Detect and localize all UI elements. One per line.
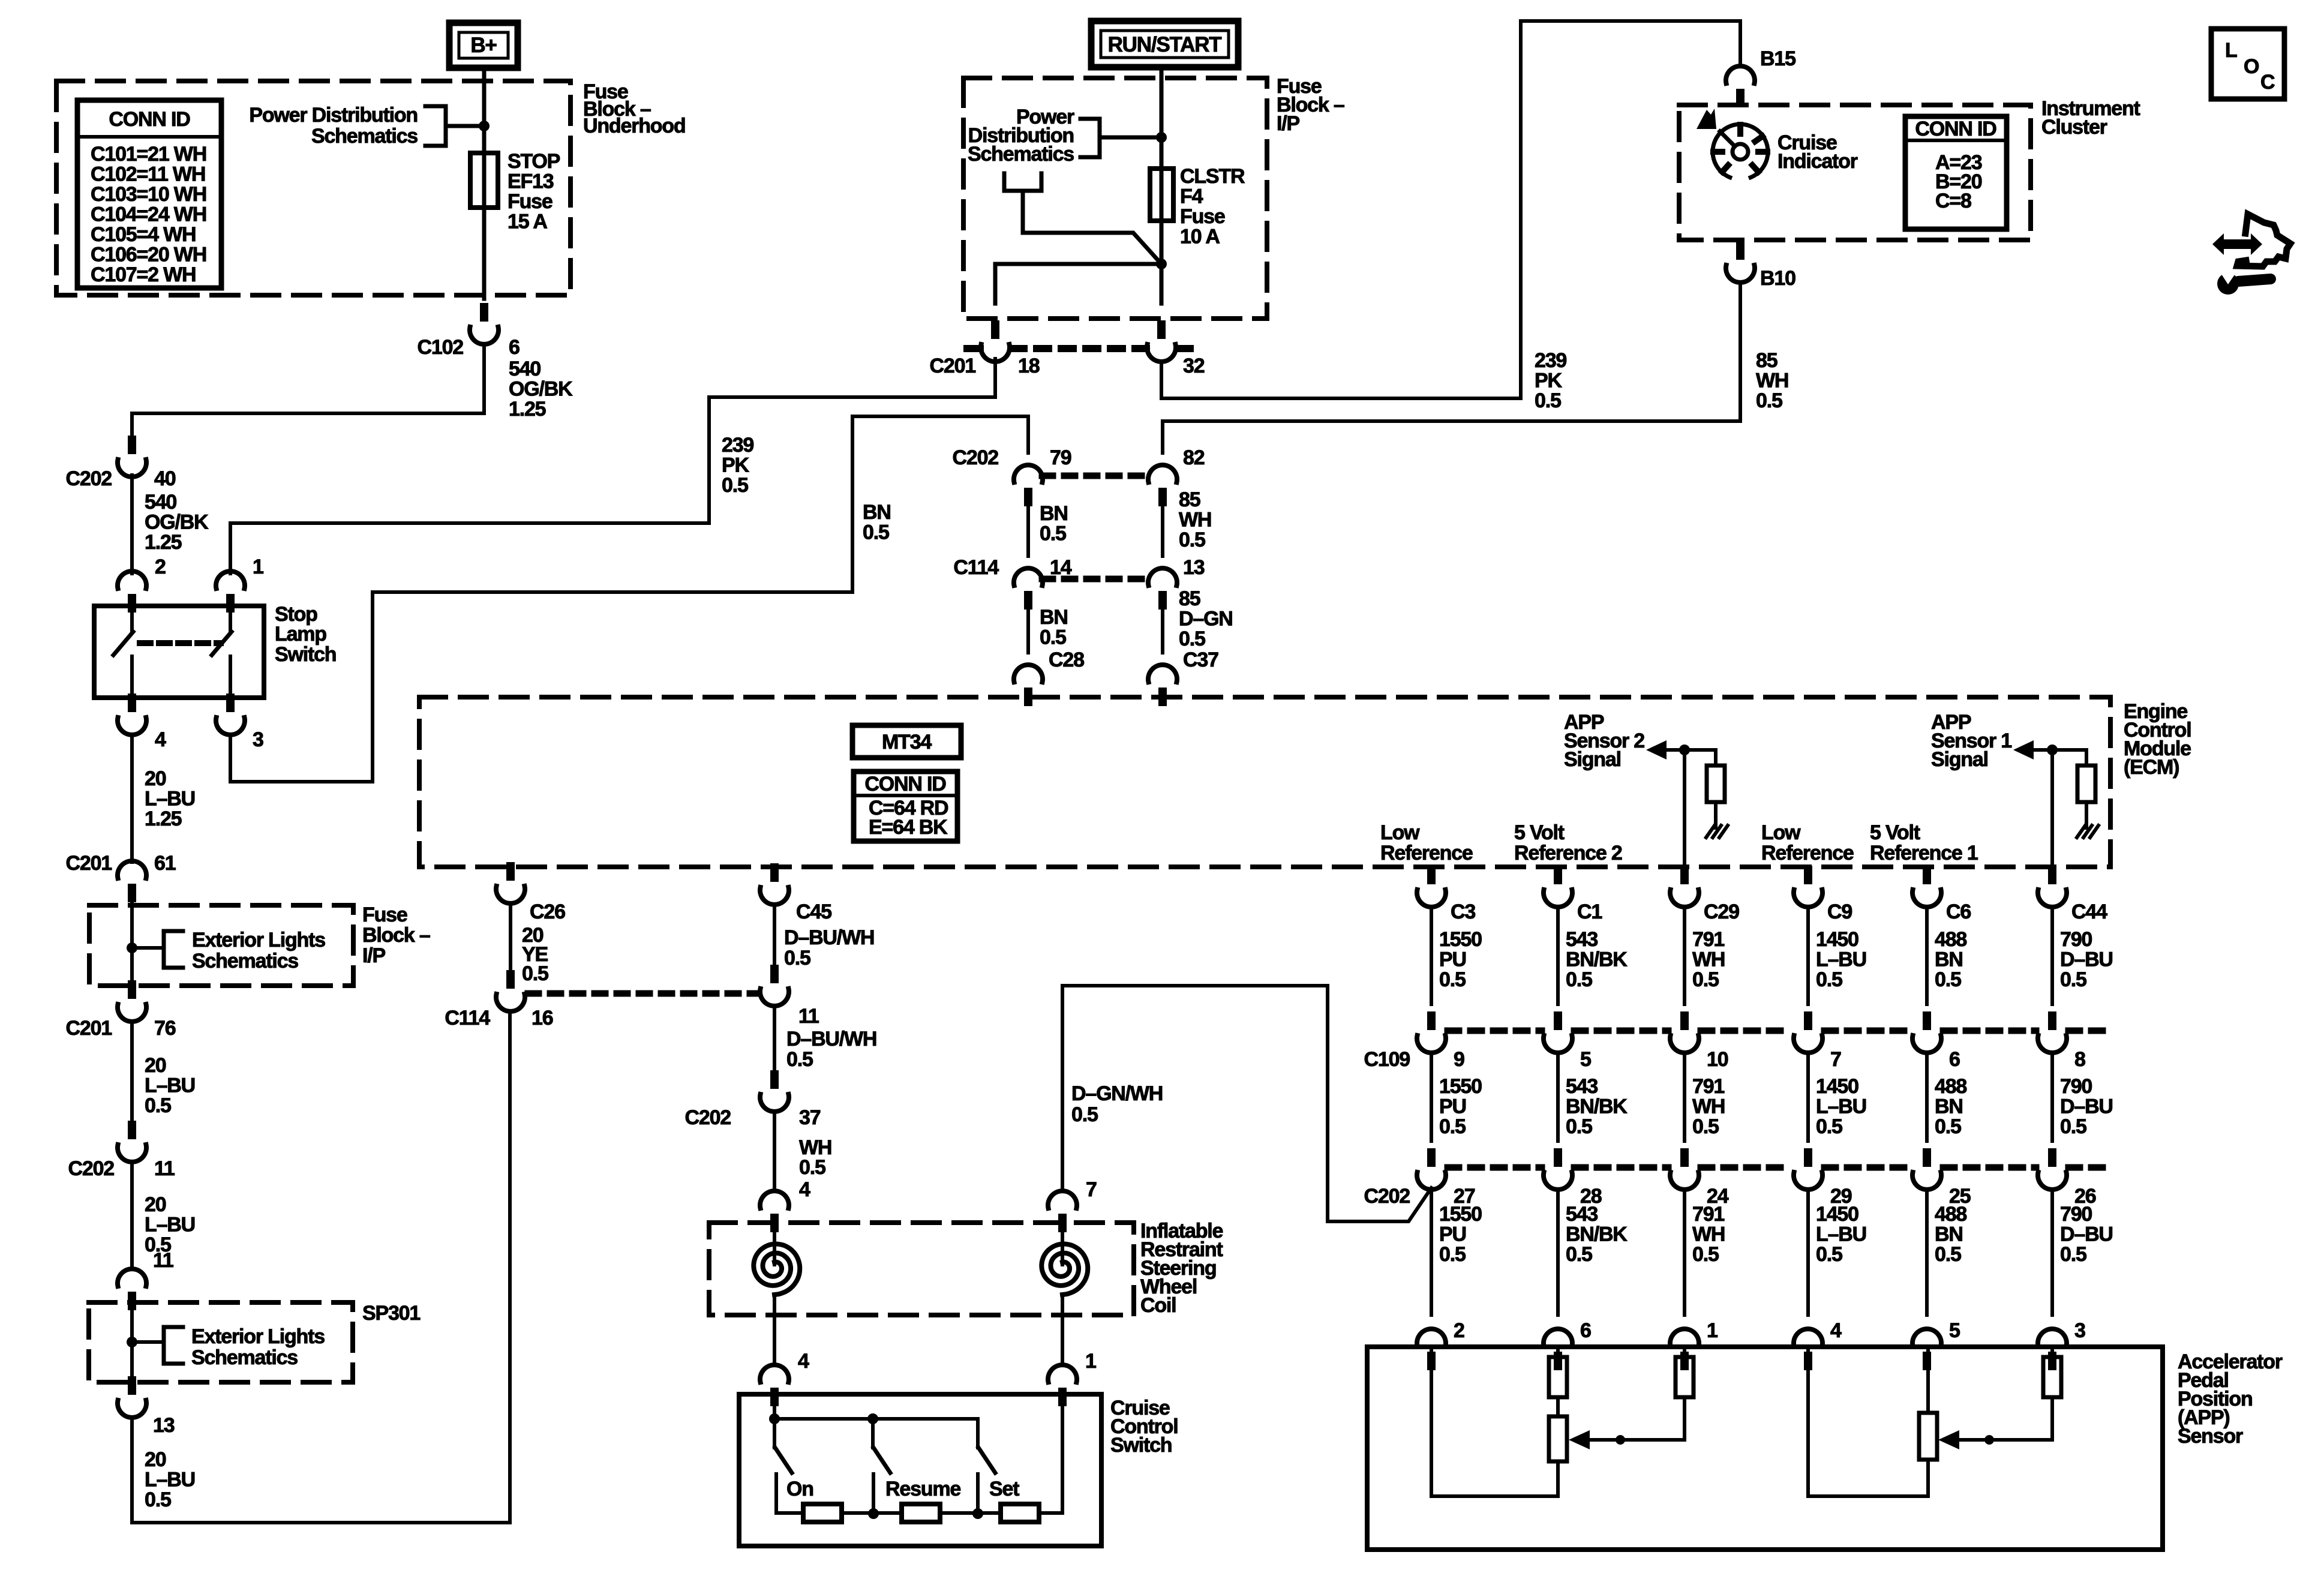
svg-text:4: 4 xyxy=(798,1350,809,1373)
instrument cluster box xyxy=(1679,105,2031,240)
connector C201 pin 18 xyxy=(981,320,1010,362)
svg-text:C6: C6 xyxy=(1946,900,1971,923)
svg-text:4: 4 xyxy=(1830,1319,1842,1342)
wiper arrow APP1 xyxy=(1938,1430,1959,1449)
svg-text:0.5: 0.5 xyxy=(1566,968,1592,991)
svg-text:L–BU: L–BU xyxy=(1816,948,1866,971)
svg-text:C114: C114 xyxy=(445,1007,490,1029)
gauge flag arrow xyxy=(1697,109,1716,129)
svg-text:C202: C202 xyxy=(953,446,999,469)
svg-text:Signal: Signal xyxy=(1931,748,1988,771)
svg-text:F4: F4 xyxy=(1180,185,1203,208)
connector C109 pin 9 xyxy=(1417,1011,1446,1053)
svg-text:0.5: 0.5 xyxy=(1535,389,1561,412)
connector C102 pin 6 xyxy=(470,303,499,344)
svg-text:10: 10 xyxy=(1707,1048,1728,1071)
svg-text:Fuse: Fuse xyxy=(508,190,553,213)
svg-text:13: 13 xyxy=(1183,556,1205,579)
svg-text:8: 8 xyxy=(2074,1048,2085,1071)
APP internals right xyxy=(1806,1347,1810,1496)
svg-text:0.5: 0.5 xyxy=(1692,1243,1719,1266)
svg-text:5 Volt: 5 Volt xyxy=(1514,821,1565,844)
wire: 13 down right and up to C114-16 xyxy=(132,1011,510,1523)
svg-text:D–BU/WH: D–BU/WH xyxy=(784,926,874,949)
connector APP pin 4 xyxy=(1794,1329,1822,1370)
svg-text:CONN ID: CONN ID xyxy=(109,108,190,131)
wire C202-82 from B10 run xyxy=(1163,421,1740,453)
potentiometer: APP sensor 2 xyxy=(1549,1416,1567,1461)
svg-text:WH: WH xyxy=(1692,1095,1725,1118)
svg-text:Block –: Block – xyxy=(362,924,430,947)
svg-text:C107=2 WH: C107=2 WH xyxy=(91,263,196,286)
wire coil 7 feed xyxy=(1061,986,1064,1191)
C202 connector row dashed xyxy=(1448,1164,1542,1171)
wire into box xyxy=(1160,67,1164,304)
connector C114 pin 14 xyxy=(1014,568,1043,610)
connector APP pin 1 xyxy=(1670,1329,1699,1370)
svg-text:0.5: 0.5 xyxy=(1935,968,1961,991)
switch blade right xyxy=(229,606,232,632)
svg-text:0.5: 0.5 xyxy=(1566,1243,1592,1266)
connector C202 pin 82 xyxy=(1148,465,1177,506)
svg-text:40: 40 xyxy=(154,467,176,490)
svg-text:BN: BN xyxy=(863,501,891,524)
svg-text:C28: C28 xyxy=(1049,649,1084,671)
svg-text:543: 543 xyxy=(1566,928,1598,951)
svg-text:PU: PU xyxy=(1439,1095,1466,1118)
svg-text:SP301: SP301 xyxy=(362,1302,420,1325)
svg-text:RUN/START: RUN/START xyxy=(1108,33,1222,56)
wire: source to junction xyxy=(1023,191,1161,264)
svg-text:0.5: 0.5 xyxy=(1439,1243,1466,1266)
svg-text:C37: C37 xyxy=(1183,649,1218,671)
ground (ECM internal) xyxy=(2077,825,2085,837)
svg-text:3: 3 xyxy=(253,728,263,751)
connector B15 xyxy=(1726,66,1755,107)
connector pin 2 xyxy=(118,571,146,613)
B+ terminal box xyxy=(449,23,518,68)
svg-text:E=64 BK: E=64 BK xyxy=(869,816,948,839)
svg-text:1: 1 xyxy=(1707,1319,1718,1342)
connector C202 pin 24 xyxy=(1670,1148,1699,1190)
svg-text:Reference 2: Reference 2 xyxy=(1514,842,1622,864)
svg-text:0.5: 0.5 xyxy=(1816,968,1842,991)
svg-text:1450: 1450 xyxy=(1816,1203,1858,1226)
svg-text:79: 79 xyxy=(1050,446,1071,469)
connector C109 pin 10 xyxy=(1670,1011,1699,1053)
connector B10 xyxy=(1726,241,1755,283)
svg-text:L–BU: L–BU xyxy=(1816,1223,1866,1246)
connector C1 xyxy=(1544,866,1572,907)
svg-text:D–BU: D–BU xyxy=(2060,1223,2113,1246)
svg-text:1: 1 xyxy=(253,556,263,578)
svg-text:Underhood: Underhood xyxy=(583,115,686,137)
connector C202 pin 79 xyxy=(1014,465,1043,506)
branch to C201-18 xyxy=(995,264,1161,304)
svg-text:1.25: 1.25 xyxy=(145,531,182,554)
svg-text:3: 3 xyxy=(2074,1319,2085,1342)
svg-text:C202: C202 xyxy=(1364,1185,1410,1208)
coil spiral right xyxy=(1061,1223,1064,1265)
connector C201 pin 76 xyxy=(118,980,146,1022)
svg-text:0.5: 0.5 xyxy=(1756,389,1782,412)
connector C109 pin 7 xyxy=(1794,1011,1822,1053)
svg-text:0.5: 0.5 xyxy=(784,947,810,969)
resistor On xyxy=(803,1504,842,1522)
svg-text:0.5: 0.5 xyxy=(1935,1243,1961,1266)
RUN/START power box xyxy=(1091,21,1238,67)
wire: C102 down, left, down to C202-40 xyxy=(132,344,484,437)
fuse block I/P dashed box xyxy=(963,78,1267,319)
svg-text:C45: C45 xyxy=(796,900,831,923)
svg-text:CONN ID: CONN ID xyxy=(864,773,946,795)
svg-text:C114: C114 xyxy=(953,556,999,579)
C201 connector row dashed xyxy=(967,345,980,352)
svg-text:Reference: Reference xyxy=(1380,842,1473,864)
svg-text:543: 543 xyxy=(1566,1203,1598,1226)
svg-text:20: 20 xyxy=(145,1193,166,1216)
svg-text:0.5: 0.5 xyxy=(2060,1115,2086,1138)
svg-text:L–BU: L–BU xyxy=(145,1214,195,1236)
connector C9 xyxy=(1794,866,1822,907)
coil spiral left xyxy=(773,1223,776,1265)
svg-text:Indicator: Indicator xyxy=(1777,150,1858,173)
svg-text:Exterior Lights: Exterior Lights xyxy=(192,929,325,951)
svg-text:4: 4 xyxy=(155,728,166,751)
svg-text:PK: PK xyxy=(722,454,749,477)
connector APP pin 2 xyxy=(1417,1329,1446,1370)
svg-text:C101=21 WH: C101=21 WH xyxy=(91,143,206,166)
svg-text:EF13: EF13 xyxy=(508,170,554,193)
svg-text:0.5: 0.5 xyxy=(722,474,748,497)
stop lamp switch xyxy=(94,606,264,698)
junction xyxy=(479,121,490,131)
svg-text:0.5: 0.5 xyxy=(145,1094,171,1117)
svg-text:20: 20 xyxy=(145,1054,166,1077)
svg-text:5 Volt: 5 Volt xyxy=(1870,821,1920,844)
connector C202 pin 26 xyxy=(2038,1148,2067,1190)
connector C201 pin 61 xyxy=(118,861,146,902)
svg-text:0.5: 0.5 xyxy=(1692,968,1719,991)
svg-text:543: 543 xyxy=(1566,1075,1598,1098)
resistor Resume xyxy=(902,1504,940,1522)
resistor: APP sensor 2 pull-up xyxy=(1707,766,1725,802)
svg-text:0.5: 0.5 xyxy=(1816,1243,1842,1266)
svg-text:C=8: C=8 xyxy=(1935,190,1971,212)
connector C29 xyxy=(1670,866,1699,907)
svg-text:Low: Low xyxy=(1761,821,1801,844)
svg-text:6: 6 xyxy=(1580,1319,1591,1342)
svg-text:0.5: 0.5 xyxy=(1439,1115,1466,1138)
svg-text:7: 7 xyxy=(1830,1048,1841,1071)
svg-text:0.5: 0.5 xyxy=(145,1488,171,1511)
svg-text:488: 488 xyxy=(1935,1075,1966,1098)
svg-text:Cluster: Cluster xyxy=(2041,116,2107,139)
svg-text:C26: C26 xyxy=(530,900,565,923)
svg-text:O: O xyxy=(2244,55,2259,78)
fuse block I/P box (exterior lights) xyxy=(89,905,353,986)
resistor: APP2 signal branch xyxy=(1676,1357,1694,1397)
svg-text:0.5: 0.5 xyxy=(1692,1115,1719,1138)
svg-text:1.25: 1.25 xyxy=(145,807,182,830)
connector pin 13 xyxy=(118,1376,146,1418)
svg-text:CONN ID: CONN ID xyxy=(1915,118,1996,140)
svg-text:BN: BN xyxy=(1935,1223,1963,1246)
svg-text:D–GN/WH: D–GN/WH xyxy=(1071,1082,1163,1105)
svg-text:37: 37 xyxy=(799,1106,821,1129)
svg-text:488: 488 xyxy=(1935,928,1966,951)
svg-text:C44: C44 xyxy=(2071,900,2107,923)
svg-text:C201: C201 xyxy=(66,852,112,875)
svg-text:13: 13 xyxy=(153,1414,175,1437)
cruise indicator gauge xyxy=(1713,124,1768,178)
svg-text:BN/BK: BN/BK xyxy=(1566,1223,1628,1246)
svg-text:0.5: 0.5 xyxy=(1566,1115,1592,1138)
wire B10 down xyxy=(1739,282,1742,421)
svg-text:0.5: 0.5 xyxy=(1179,529,1205,551)
svg-text:32: 32 xyxy=(1183,355,1205,377)
svg-text:791: 791 xyxy=(1692,1203,1724,1226)
inflatable restraint steering wheel coil box xyxy=(709,1223,1134,1315)
svg-text:C201: C201 xyxy=(66,1017,112,1040)
svg-text:B10: B10 xyxy=(1760,267,1795,290)
svg-text:Schematics: Schematics xyxy=(968,143,1074,166)
LOC box xyxy=(2211,29,2284,99)
svg-text:STOP: STOP xyxy=(508,150,560,173)
svg-text:11: 11 xyxy=(154,1157,175,1180)
svg-text:0.5: 0.5 xyxy=(799,1156,825,1179)
svg-text:PK: PK xyxy=(1535,370,1562,392)
svg-text:1450: 1450 xyxy=(1816,1075,1858,1098)
svg-text:2: 2 xyxy=(155,556,166,578)
connector switch pin 4 xyxy=(760,1365,789,1406)
wire to stop lamp switch pin 2 xyxy=(130,475,134,574)
svg-text:C109: C109 xyxy=(1364,1048,1410,1071)
svg-text:C202: C202 xyxy=(685,1106,731,1129)
svg-text:L: L xyxy=(2225,39,2237,62)
svg-text:790: 790 xyxy=(2060,928,2092,951)
MT34 box xyxy=(852,725,961,758)
connector C44 xyxy=(2038,866,2067,907)
junction xyxy=(1984,1435,1994,1445)
svg-text:16: 16 xyxy=(532,1007,553,1029)
svg-text:Fuse: Fuse xyxy=(1180,205,1225,228)
svg-text:I/P: I/P xyxy=(1277,112,1299,135)
connector C37 xyxy=(1148,665,1177,706)
svg-text:C201: C201 xyxy=(930,355,976,377)
svg-text:5: 5 xyxy=(1580,1048,1591,1071)
connector C3 xyxy=(1417,866,1446,907)
svg-text:C3: C3 xyxy=(1451,900,1475,923)
svg-text:11: 11 xyxy=(153,1249,173,1272)
engine control module box xyxy=(419,697,2110,867)
svg-text:L–BU: L–BU xyxy=(145,1074,195,1097)
svg-text:C202: C202 xyxy=(66,467,112,490)
svg-text:C103=10 WH: C103=10 WH xyxy=(91,183,206,206)
connector C28 xyxy=(1014,665,1043,706)
mechanical link dashed xyxy=(140,640,221,646)
svg-text:BN: BN xyxy=(1935,1095,1963,1118)
connector C202 pin 29 xyxy=(1794,1148,1822,1190)
connector C26 xyxy=(496,862,525,903)
CONN ID table (cluster) xyxy=(1905,116,2007,229)
wire from C201-18 loop to pin 1 xyxy=(230,359,995,574)
svg-text:OG/BK: OG/BK xyxy=(509,378,573,401)
svg-text:1: 1 xyxy=(1085,1350,1096,1373)
CONN ID table (ECM) xyxy=(854,772,957,841)
connector C201 pin 32 xyxy=(1147,320,1176,362)
resistor: APP1 signal branch xyxy=(2043,1357,2061,1397)
svg-text:C202: C202 xyxy=(68,1157,115,1180)
resistor Set xyxy=(1001,1504,1039,1522)
svg-text:Resume: Resume xyxy=(885,1478,960,1500)
svg-text:18: 18 xyxy=(1018,355,1040,377)
svg-text:15 A: 15 A xyxy=(508,211,547,233)
svg-text:76: 76 xyxy=(154,1017,176,1040)
connector C109 pin 5 xyxy=(1544,1011,1572,1053)
svg-text:CLSTR: CLSTR xyxy=(1180,165,1245,188)
fuse CLSTR F4 xyxy=(1150,169,1173,221)
connector pin 3 xyxy=(216,694,245,735)
svg-text:9: 9 xyxy=(1454,1048,1464,1071)
svg-text:20: 20 xyxy=(145,1448,166,1471)
svg-text:Signal: Signal xyxy=(1564,748,1621,771)
svg-text:1550: 1550 xyxy=(1439,1203,1482,1226)
svg-text:Coil: Coil xyxy=(1140,1294,1176,1317)
svg-text:Fuse: Fuse xyxy=(362,903,407,926)
wire: B+ down through fuse block xyxy=(482,68,487,299)
svg-text:C: C xyxy=(2260,71,2275,94)
svg-text:0.5: 0.5 xyxy=(522,962,548,985)
svg-text:C1: C1 xyxy=(1577,900,1602,923)
svg-text:61: 61 xyxy=(154,852,176,875)
svg-text:C104=24 WH: C104=24 WH xyxy=(91,203,206,226)
svg-text:0.5: 0.5 xyxy=(1439,968,1466,991)
svg-text:82: 82 xyxy=(1183,446,1205,469)
svg-text:4: 4 xyxy=(799,1178,810,1201)
connector C114 pin 11 xyxy=(760,965,789,1006)
wire: pin3 to BN run xyxy=(230,416,1028,782)
svg-text:Schematics: Schematics xyxy=(191,1346,298,1369)
connector C6 xyxy=(1912,866,1941,907)
svg-text:540: 540 xyxy=(145,491,176,514)
svg-text:1550: 1550 xyxy=(1439,928,1482,951)
svg-text:1.25: 1.25 xyxy=(509,398,546,421)
svg-text:BN/BK: BN/BK xyxy=(1566,948,1628,971)
svg-text:0.5: 0.5 xyxy=(1179,628,1205,650)
svg-text:L–BU: L–BU xyxy=(145,788,195,810)
svg-text:0.5: 0.5 xyxy=(1071,1103,1098,1126)
resistor: APP2 upper xyxy=(1549,1357,1567,1397)
APP internals left xyxy=(1430,1347,1433,1496)
C109 connector row dashed xyxy=(1448,1028,1542,1034)
service icon wrench xyxy=(2217,273,2239,295)
svg-text:Schematics: Schematics xyxy=(311,125,418,148)
svg-text:20: 20 xyxy=(145,767,166,790)
connector C202 pin 28 xyxy=(1544,1148,1572,1190)
source bracket xyxy=(1002,173,1007,191)
svg-text:2: 2 xyxy=(1454,1319,1464,1342)
connector C202 pin 25 xyxy=(1912,1148,1941,1190)
svg-text:(ECM): (ECM) xyxy=(2124,756,2179,779)
connector APP pin 5 xyxy=(1912,1329,1941,1370)
svg-text:WH: WH xyxy=(1179,509,1211,532)
svg-text:6: 6 xyxy=(1949,1048,1960,1071)
wire from cruise switch to C202-27 xyxy=(1062,986,1431,1221)
svg-text:C106=20 WH: C106=20 WH xyxy=(91,244,206,266)
svg-text:Lamp: Lamp xyxy=(275,623,326,646)
svg-text:On: On xyxy=(786,1478,813,1500)
svg-text:239: 239 xyxy=(1535,349,1566,372)
svg-text:L–BU: L–BU xyxy=(1816,1095,1866,1118)
svg-text:0.5: 0.5 xyxy=(1935,1115,1961,1138)
junction xyxy=(1616,1435,1625,1445)
wire C201-32 to cruise loop xyxy=(1161,21,1740,398)
svg-text:Sensor: Sensor xyxy=(2178,1425,2243,1448)
svg-text:BN: BN xyxy=(1935,948,1963,971)
svg-text:7: 7 xyxy=(1086,1178,1097,1201)
svg-text:OG/BK: OG/BK xyxy=(145,511,209,534)
svg-text:0.5: 0.5 xyxy=(863,521,889,544)
svg-text:BN: BN xyxy=(1040,502,1068,525)
C114 dashed row xyxy=(528,990,757,997)
switch internals xyxy=(773,1394,776,1419)
connector C202 pin 27 xyxy=(1417,1148,1446,1190)
svg-text:0.5: 0.5 xyxy=(1040,523,1066,545)
cruise control switch box xyxy=(739,1394,1101,1546)
svg-text:85: 85 xyxy=(1756,349,1777,372)
svg-text:C105=4 WH: C105=4 WH xyxy=(91,223,196,246)
svg-text:11: 11 xyxy=(798,1005,819,1028)
splice SP301 box xyxy=(89,1302,353,1382)
svg-text:85: 85 xyxy=(1179,587,1200,610)
svg-text:Switch: Switch xyxy=(1110,1434,1172,1457)
svg-text:D–BU: D–BU xyxy=(2060,948,2113,971)
connector switch pin 1 xyxy=(1048,1365,1077,1406)
svg-text:1450: 1450 xyxy=(1816,928,1858,951)
svg-text:540: 540 xyxy=(509,358,541,380)
svg-text:790: 790 xyxy=(2060,1203,2092,1226)
svg-text:14: 14 xyxy=(1050,556,1072,579)
connector C45 xyxy=(760,863,789,905)
svg-text:0.5: 0.5 xyxy=(2060,1243,2086,1266)
svg-text:I/P: I/P xyxy=(362,944,385,967)
fuse block underhood box xyxy=(56,81,571,295)
resistor: APP sensor 1 pull-up xyxy=(2077,766,2095,802)
svg-text:6: 6 xyxy=(509,336,520,359)
connector C202 pin 11 xyxy=(118,1121,146,1162)
connector C114 pin 13 xyxy=(1148,568,1177,610)
connector pin 4 xyxy=(118,694,146,735)
fuse EF13 xyxy=(470,153,498,208)
svg-text:791: 791 xyxy=(1692,928,1724,951)
svg-text:5: 5 xyxy=(1949,1319,1960,1342)
svg-text:Low: Low xyxy=(1380,821,1420,844)
svg-text:B+: B+ xyxy=(470,34,497,57)
svg-text:D–BU: D–BU xyxy=(2060,1095,2113,1118)
svg-text:Switch: Switch xyxy=(275,643,336,666)
svg-text:Exterior Lights: Exterior Lights xyxy=(191,1325,325,1348)
svg-text:1550: 1550 xyxy=(1439,1075,1482,1098)
svg-text:0.5: 0.5 xyxy=(2060,968,2086,991)
accelerator pedal position sensor box xyxy=(1367,1347,2163,1550)
svg-text:Set: Set xyxy=(989,1478,1019,1500)
connector APP pin 6 xyxy=(1544,1329,1572,1370)
connector C202 pin 40 xyxy=(118,436,146,477)
svg-text:WH: WH xyxy=(1692,948,1725,971)
connector C202 pin 37 xyxy=(760,1070,789,1112)
connector APP pin 3 xyxy=(2038,1329,2067,1370)
